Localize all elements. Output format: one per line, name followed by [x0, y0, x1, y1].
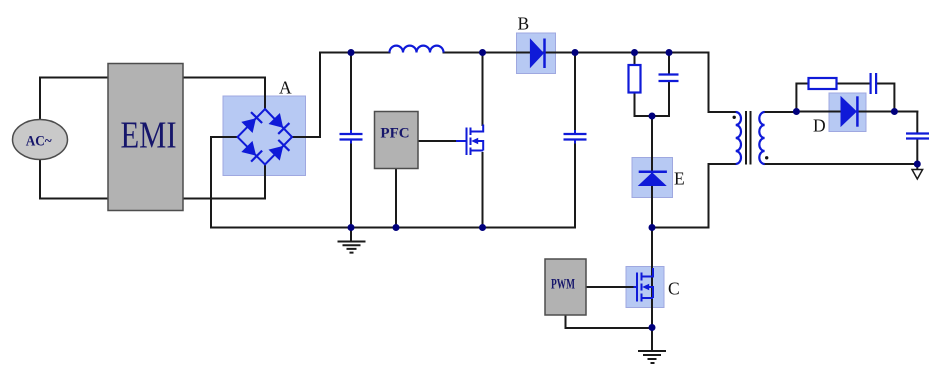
- svg-text:D: D: [813, 116, 826, 136]
- svg-text:AC~: AC~: [26, 133, 52, 149]
- svg-text:PFC: PFC: [380, 126, 409, 142]
- svg-text:EMI: EMI: [121, 115, 177, 157]
- svg-text:E: E: [674, 169, 685, 189]
- svg-text:A: A: [279, 78, 292, 98]
- svg-text:PWM: PWM: [551, 277, 575, 293]
- svg-text:C: C: [668, 279, 680, 299]
- svg-text:B: B: [518, 14, 530, 34]
